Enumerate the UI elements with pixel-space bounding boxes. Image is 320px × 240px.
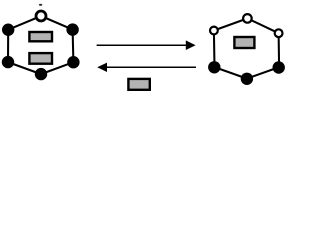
left node: filled lower-left	[2, 56, 14, 68]
forward arrow (top, pointing right)	[97, 44, 187, 46]
left gray box 2	[29, 53, 52, 64]
gray box below reverse arrow	[128, 79, 149, 90]
right node: filled lower-right	[273, 61, 285, 73]
left node: filled bottom	[35, 68, 47, 80]
left node: filled lower-right	[67, 56, 79, 68]
right node: open circle upper-left	[210, 27, 218, 35]
left gray box 1	[29, 32, 52, 41]
right node: open circle top	[243, 14, 252, 23]
small dot above left ring	[39, 4, 42, 6]
left node: filled upper-left	[2, 24, 14, 36]
right gray box	[234, 37, 254, 48]
left node: open circle top	[36, 11, 46, 21]
right node: open circle upper-right	[275, 29, 283, 37]
right node: filled bottom	[241, 73, 253, 85]
reverse arrow (bottom, pointing left)	[107, 66, 197, 68]
right ring bond edges	[214, 18, 279, 78]
right node: filled lower-left	[208, 61, 220, 73]
left ring bond edges	[8, 16, 73, 74]
left node: filled upper-right	[66, 23, 78, 35]
